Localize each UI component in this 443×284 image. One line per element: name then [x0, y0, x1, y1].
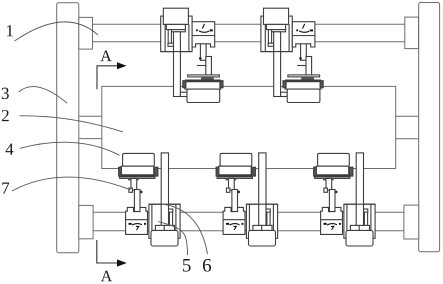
leader 4	[20, 142, 120, 155]
label A top	[100, 51, 111, 62]
bottom assembly 2	[216, 153, 278, 246]
leader 6	[164, 204, 208, 254]
label 4	[6, 144, 14, 155]
top rail (item 1)	[93, 23, 405, 25]
bottom-left rail tab	[79, 205, 93, 238]
leader 1	[15, 22, 99, 41]
bottom-right rail tab	[404, 205, 419, 239]
label 6	[203, 259, 211, 272]
right connector lines	[396, 115, 419, 117]
top-left rail tab	[79, 17, 93, 49]
bottom assembly 1 (items 4,5,6,7)	[119, 153, 181, 246]
bottom assembly 3	[314, 153, 376, 246]
leader 3	[19, 87, 68, 104]
top carriage assembly 1	[161, 8, 223, 102]
label A bottom	[101, 271, 112, 282]
central plate (item 2)	[102, 86, 396, 168]
label 5	[183, 259, 191, 272]
left connector lines	[79, 115, 102, 117]
right frame bar	[419, 3, 440, 252]
label 3	[2, 88, 9, 99]
left frame bar (item 3)	[57, 3, 79, 253]
bottom rail	[93, 211, 404, 213]
leader 2	[19, 116, 123, 132]
label 2	[2, 110, 9, 121]
top carriage assembly 2	[261, 8, 323, 102]
top-right rail tab	[405, 17, 419, 48]
label 7	[2, 182, 9, 193]
label 1	[7, 25, 13, 36]
leader 7	[12, 177, 131, 191]
section line A top	[97, 66, 117, 89]
section line A bottom	[97, 240, 117, 263]
leader 5	[158, 222, 188, 256]
